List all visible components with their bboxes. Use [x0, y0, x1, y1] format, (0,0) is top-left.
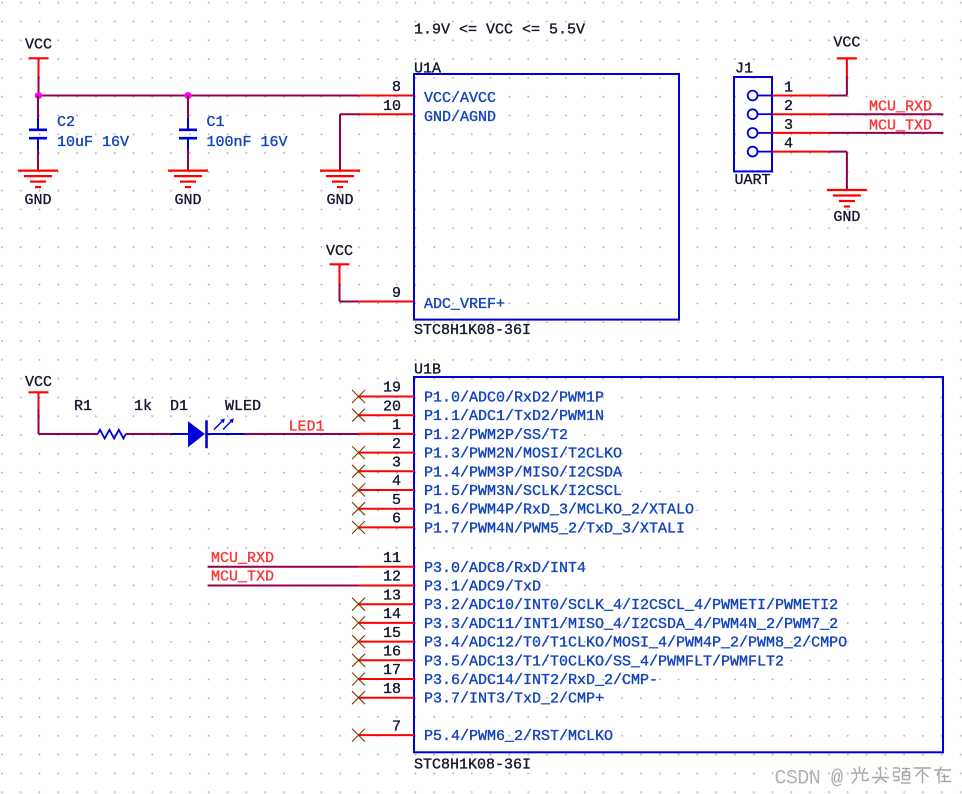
svg-text:LED1: LED1 [289, 419, 325, 436]
svg-text:7: 7 [392, 718, 401, 735]
svg-text:VCC: VCC [25, 37, 52, 54]
svg-text:GND: GND [326, 192, 353, 209]
svg-text:14: 14 [383, 606, 401, 623]
svg-text:3: 3 [392, 455, 401, 472]
svg-text:P1.2/PWM2P/SS/T2: P1.2/PWM2P/SS/T2 [424, 427, 568, 444]
svg-text:P1.5/PWM3N/SCLK/I2CSCL: P1.5/PWM3N/SCLK/I2CSCL [424, 483, 622, 500]
svg-text:U1B: U1B [414, 362, 441, 379]
svg-text:1: 1 [392, 417, 401, 434]
svg-text:C1: C1 [207, 114, 225, 131]
svg-text:P3.7/INT3/TxD_2/CMP+: P3.7/INT3/TxD_2/CMP+ [424, 691, 604, 708]
svg-text:C2: C2 [57, 114, 75, 131]
svg-text:P1.3/PWM2N/MOSI/T2CLKO: P1.3/PWM2N/MOSI/T2CLKO [424, 446, 622, 463]
svg-text:1.9V <= VCC <= 5.5V: 1.9V <= VCC <= 5.5V [414, 22, 585, 39]
svg-text:WLED: WLED [225, 398, 261, 415]
svg-text:10uF 16V: 10uF 16V [57, 134, 129, 151]
svg-text:P3.2/ADC10/INT0/SCLK_4/I2CSCL_: P3.2/ADC10/INT0/SCLK_4/I2CSCL_4/PWMETI/P… [424, 597, 838, 614]
svg-text:13: 13 [383, 587, 401, 604]
svg-text:P5.4/PWM6_2/RST/MCLKO: P5.4/PWM6_2/RST/MCLKO [424, 728, 613, 745]
svg-text:P3.6/ADC14/INT2/RxD_2/CMP-: P3.6/ADC14/INT2/RxD_2/CMP- [424, 672, 658, 689]
svg-text:P3.5/ADC13/T1/T0CLKO/SS_4/PWMF: P3.5/ADC13/T1/T0CLKO/SS_4/PWMFLT/PWMFLT2 [424, 653, 784, 670]
svg-text:17: 17 [383, 662, 401, 679]
svg-text:9: 9 [392, 285, 401, 302]
svg-text:MCU_TXD: MCU_TXD [211, 569, 274, 586]
svg-text:CSDN: CSDN [775, 768, 821, 791]
svg-text:20: 20 [383, 398, 401, 415]
svg-text:MCU_RXD: MCU_RXD [869, 99, 932, 116]
svg-text:2: 2 [784, 98, 793, 115]
svg-text:4: 4 [392, 473, 401, 490]
svg-text:GND: GND [24, 192, 51, 209]
svg-text:10: 10 [383, 98, 401, 115]
svg-text:P3.0/ADC8/RxD/INT4: P3.0/ADC8/RxD/INT4 [424, 560, 586, 577]
svg-text:P3.1/ADC9/TxD: P3.1/ADC9/TxD [424, 579, 541, 596]
svg-text:P1.7/PWM4N/PWM5_2/TxD_3/XTALI: P1.7/PWM4N/PWM5_2/TxD_3/XTALI [424, 520, 685, 537]
svg-text:STC8H1K08-36I: STC8H1K08-36I [414, 322, 531, 339]
svg-text:11: 11 [383, 550, 401, 567]
svg-text:P3.4/ADC12/T0/T1CLKO/MOSI_4/PW: P3.4/ADC12/T0/T1CLKO/MOSI_4/PWM4P_2/PWM8… [424, 635, 847, 652]
svg-text:1: 1 [784, 80, 793, 97]
svg-text:3: 3 [784, 117, 793, 134]
svg-text:8: 8 [392, 79, 401, 96]
svg-text:STC8H1K08-36I: STC8H1K08-36I [414, 757, 531, 774]
svg-text:2: 2 [392, 436, 401, 453]
svg-text:18: 18 [383, 681, 401, 698]
svg-text:5: 5 [392, 492, 401, 509]
svg-text:R1: R1 [74, 398, 92, 415]
svg-text:16: 16 [383, 644, 401, 661]
svg-text:D1: D1 [170, 398, 188, 415]
svg-text:VCC/AVCC: VCC/AVCC [424, 90, 496, 107]
svg-text:19: 19 [383, 380, 401, 397]
svg-text:100nF 16V: 100nF 16V [207, 134, 288, 151]
svg-text:4: 4 [784, 136, 793, 153]
svg-text:UART: UART [735, 172, 771, 189]
svg-text:P1.4/PWM3P/MISO/I2CSDA: P1.4/PWM3P/MISO/I2CSDA [424, 464, 622, 481]
svg-text:MCU_TXD: MCU_TXD [869, 117, 932, 134]
svg-text:GND: GND [174, 192, 201, 209]
svg-text:15: 15 [383, 625, 401, 642]
svg-text:P1.0/ADC0/RxD2/PWM1P: P1.0/ADC0/RxD2/PWM1P [424, 390, 604, 407]
svg-text:12: 12 [383, 569, 401, 586]
svg-text:6: 6 [392, 511, 401, 528]
svg-text:ADC_VREF+: ADC_VREF+ [424, 296, 505, 313]
svg-text:VCC: VCC [25, 374, 52, 391]
svg-text:1k: 1k [134, 398, 152, 415]
svg-text:MCU_RXD: MCU_RXD [211, 550, 274, 567]
svg-text:P3.3/ADC11/INT1/MISO_4/I2CSDA_: P3.3/ADC11/INT1/MISO_4/I2CSDA_4/PWM4N_2/… [424, 616, 838, 633]
svg-text:J1: J1 [735, 61, 753, 78]
svg-text:P1.6/PWM4P/RxD_3/MCLKO_2/XTALO: P1.6/PWM4P/RxD_3/MCLKO_2/XTALO [424, 502, 694, 519]
svg-text:P1.1/ADC1/TxD2/PWM1N: P1.1/ADC1/TxD2/PWM1N [424, 408, 604, 425]
svg-text:VCC: VCC [326, 243, 353, 260]
svg-text:GND: GND [833, 209, 860, 226]
svg-text:@: @ [831, 768, 843, 791]
svg-text:GND/AGND: GND/AGND [424, 109, 496, 126]
svg-text:VCC: VCC [833, 35, 860, 52]
